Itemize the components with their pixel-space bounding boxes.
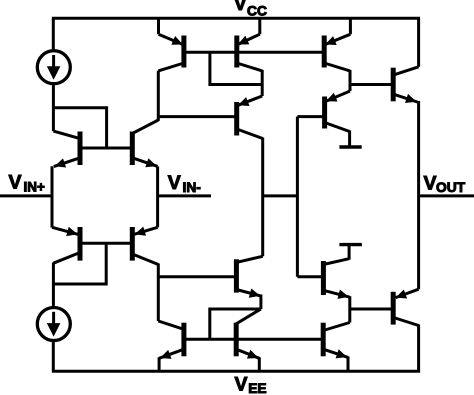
wire Q4 collector node [157,264,160,322]
wire Q6 collector [261,70,264,96]
transistor Q11 [236,309,261,359]
wire Q5 emitter stub [157,18,160,34]
wire bottom mirror diode jog [210,309,261,339]
wire Q16 base [350,308,393,311]
wire top mirror diode jog [210,52,262,84]
label VCC [234,0,267,19]
svg-text:CC: CC [247,4,267,19]
transistor Q3 [52,227,80,263]
wire VCC to current source I1 [52,18,55,51]
wire Q7 emitter stub [349,18,352,34]
svg-text:EE: EE [248,381,266,395]
wire Q8 collector long [261,138,264,257]
svg-text:V: V [234,0,247,15]
current source I2 [37,308,70,341]
wire base line upper input pair [80,147,132,150]
wire Q14 base [297,275,323,278]
wire Q6 emitter stub [258,18,261,34]
wire H crossbar [263,194,298,197]
wire diode jog lower [53,243,106,284]
transistor Q5 [158,34,184,71]
wire Q11 emitter stub [258,357,261,371]
label VIN+ [9,171,46,194]
wire Q7 collector [349,70,352,91]
compensation tap bottom stem [348,245,351,260]
wire Q16 collector to VEE [417,325,420,372]
wire Q9 emitter [259,295,262,310]
VCC rail [52,17,420,20]
transistor Q9 [236,256,262,298]
transistor Q16 [393,289,418,325]
wire Q3 collector to I2 [52,263,55,308]
wire VIN+ vertical [51,166,54,227]
label VEE [235,373,267,395]
node VOUT wire [419,194,474,197]
wire I1 to Q1 collector [52,84,55,132]
wire Q15 base [350,83,393,86]
node VIN- wire [158,194,211,197]
transistor Q10 [158,321,184,359]
transistor Q2 [132,120,158,167]
label VIN- [168,172,201,195]
transistor Q15 [393,67,418,103]
transistor Q6 [237,34,262,71]
compensation tap bottom bar [339,243,362,246]
wire Q2 collector node [157,71,160,121]
transistor Q8 [237,96,263,139]
wire Q12 emitter stub [347,356,350,371]
wire Q13 base [297,115,324,118]
svg-text:V: V [168,172,181,194]
wire VCC corner to Q15 [417,18,420,67]
wire Q10 emitter stub [158,357,161,371]
wire VIN- vertical [156,166,159,227]
wire Q9 base [158,275,236,278]
svg-text:IN-: IN- [183,180,202,195]
svg-text:OUT: OUT [436,180,466,195]
wire diode jog upper [53,108,106,148]
svg-text:V: V [235,373,248,395]
transistor Q13 [325,91,350,132]
transistor Q1 [53,131,80,167]
label VOUT [424,173,466,195]
compensation tap top bar [339,145,361,148]
compensation tap top stem [348,131,351,147]
wire second stage base column [296,117,299,277]
wire base line bottom mirror [184,338,323,341]
transistor Q7 [324,34,350,71]
VEE rail [52,370,420,373]
wire Q8 base [158,115,236,118]
svg-text:V: V [9,171,22,193]
wire output column [417,101,420,289]
node VIN+ wire [0,194,52,197]
transistor Q14 [323,259,349,299]
wire I2 to VEE [52,340,55,371]
transistor Q12 [323,323,350,359]
current source I1 [37,51,70,84]
wire Q14 emitter node [348,296,351,322]
transistor Q4 [132,227,158,265]
wire base line lower input pair [80,242,132,245]
svg-text:V: V [424,173,437,195]
svg-text:IN+: IN+ [24,179,46,194]
wire base line top mirror [184,51,324,54]
